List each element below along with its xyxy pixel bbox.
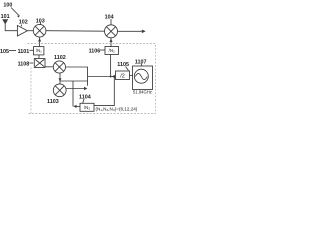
svg-text:105: 105 — [0, 49, 9, 55]
svg-text:/N₁: /N₁ — [36, 48, 42, 53]
svg-text:/N₃: /N₃ — [84, 105, 90, 110]
svg-text:1105: 1105 — [117, 62, 129, 68]
svg-text:1101: 1101 — [18, 49, 30, 55]
svg-text:1103: 1103 — [47, 99, 59, 105]
svg-text:1104: 1104 — [79, 94, 91, 100]
svg-text:1108: 1108 — [18, 62, 30, 68]
svg-text:/N₂: /N₂ — [109, 48, 115, 53]
svg-text:1102: 1102 — [54, 55, 66, 61]
svg-text:102: 102 — [19, 19, 28, 25]
svg-text:51.84GHz: 51.84GHz — [133, 90, 152, 95]
svg-text:103: 103 — [36, 18, 45, 24]
svg-text:104: 104 — [105, 14, 114, 20]
svg-text:100: 100 — [3, 2, 12, 8]
svg-text:1106: 1106 — [89, 48, 101, 54]
svg-text:/2: /2 — [120, 74, 125, 80]
svg-text:101: 101 — [1, 14, 10, 20]
svg-text:(N₁,N₂,N₃)=(8,12,24): (N₁,N₂,N₃)=(8,12,24) — [96, 107, 138, 112]
svg-text:1107: 1107 — [135, 60, 147, 66]
